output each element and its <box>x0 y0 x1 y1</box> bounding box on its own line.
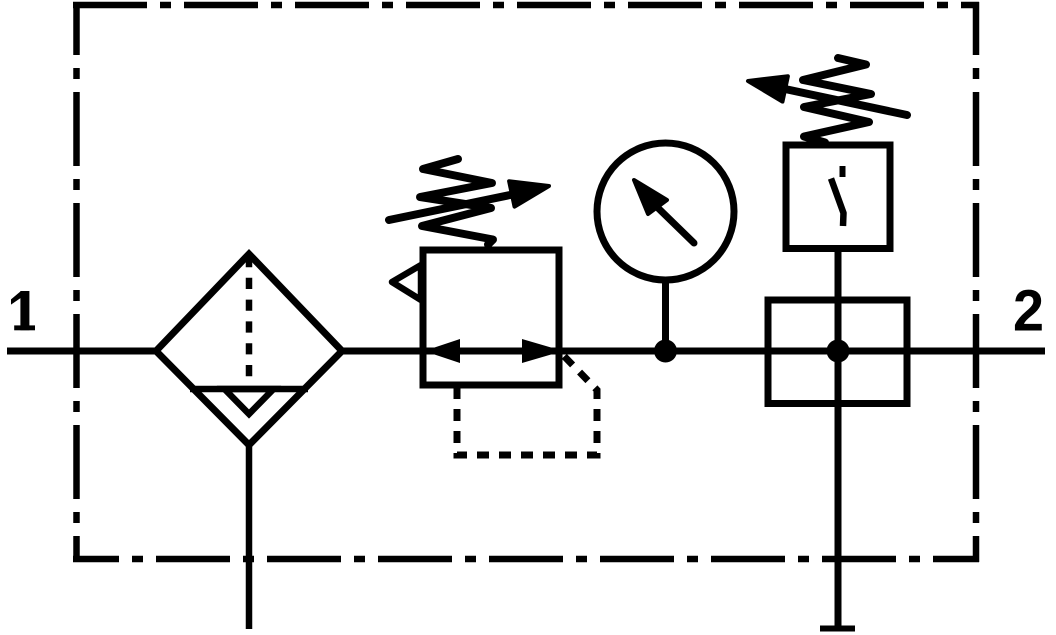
regulator R1 left flow arrowhead <box>424 339 460 363</box>
switch S1 contact blade <box>831 179 844 227</box>
filter F1 element dashed center line <box>246 256 253 388</box>
port label 1 <box>11 291 35 330</box>
gauge G1 needle arrowhead <box>634 180 667 214</box>
junction node at gauge tap <box>654 340 677 363</box>
filter F1 sump separator line <box>190 386 308 393</box>
gauge G1 needle shaft <box>657 207 694 243</box>
wire: condensate drain line <box>246 446 253 629</box>
regulator R1 adjustment spring <box>420 159 493 245</box>
filter F1 manual drain triangle <box>225 389 274 414</box>
exhaust terminal bar <box>820 626 855 632</box>
junction node at pick-off block <box>827 340 850 363</box>
enclosure dash-dot frame right side <box>973 2 980 562</box>
wire: gauge stem <box>662 277 669 351</box>
switch S1 adjustment arrow shaft <box>785 89 907 115</box>
wire: main flow line from port 1 to filter <box>7 348 158 355</box>
switch S1 setting spring <box>803 58 871 143</box>
pressure switch S1 body <box>786 145 890 249</box>
pick-off block body on main line <box>768 300 907 404</box>
svg-text:2: 2 <box>1013 279 1044 344</box>
regulator R1 adjustment arrowhead <box>509 181 549 206</box>
regulator R1 adjustment arrow shaft <box>389 194 515 220</box>
enclosure dash-dot frame bottom side <box>73 556 979 563</box>
regulator R1 relief triangle <box>392 265 421 300</box>
regulator R1 body <box>423 250 559 385</box>
regulator R1 dashed pilot line <box>457 354 597 455</box>
filter F1 diamond body <box>156 254 342 445</box>
switch S1 adjustment arrowhead <box>748 76 788 101</box>
enclosure dash-dot frame top side <box>73 2 979 9</box>
pressure gauge G1 dial <box>597 143 734 280</box>
regulator R1 right flow arrowhead <box>522 339 563 363</box>
enclosure dash-dot frame left side <box>73 2 80 562</box>
wire: main flow line from filter to port 2 <box>340 348 1045 355</box>
switch S1 fixed contact tick <box>840 166 846 177</box>
wire: switch sensing line down to exhaust <box>835 248 842 628</box>
